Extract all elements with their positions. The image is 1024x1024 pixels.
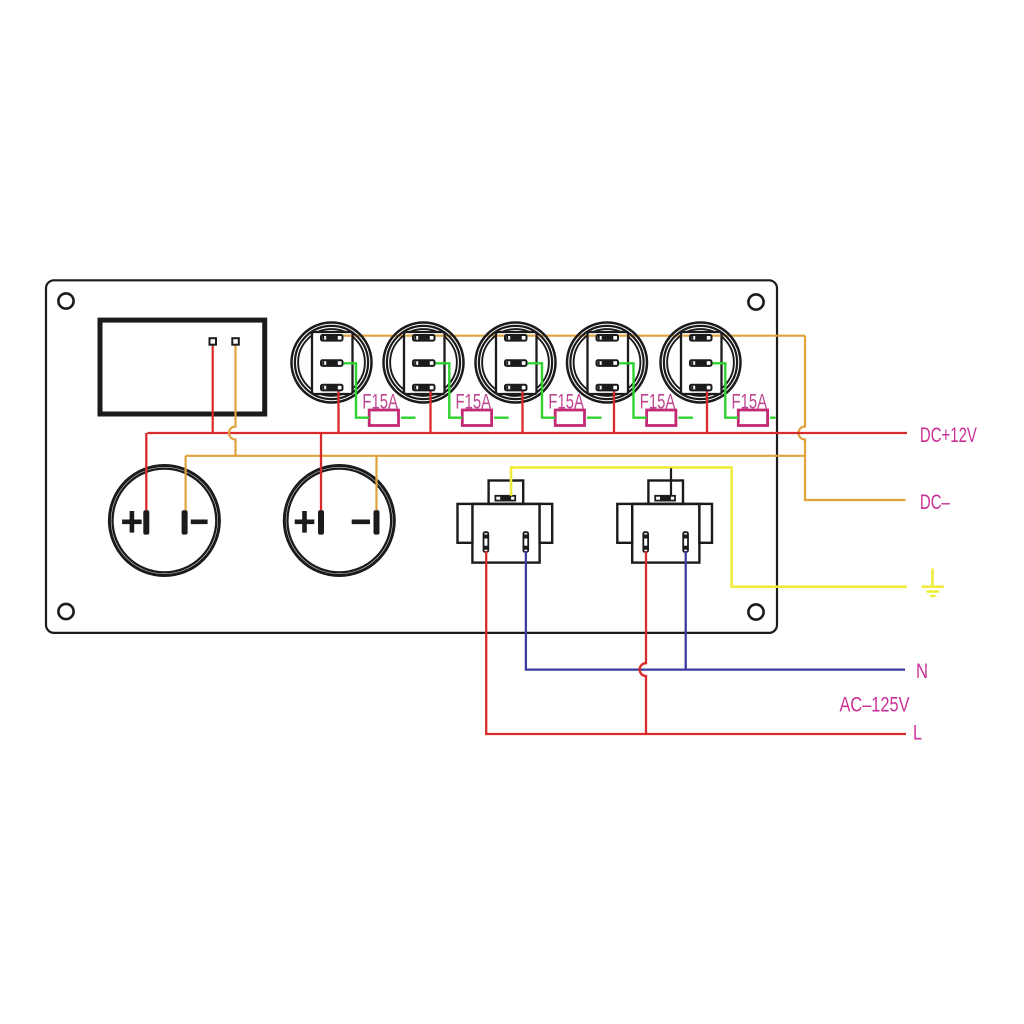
fuse F3 15A bbox=[555, 410, 584, 426]
wire orange voltmeter negative with hop bbox=[229, 346, 236, 456]
wire green SW5 to fuse F5 bbox=[713, 363, 739, 417]
wire red socket P1 positive bbox=[145, 433, 147, 511]
wire orange bus segment across SW4 bbox=[589, 335, 627, 337]
voltmeter display U1 bbox=[100, 320, 265, 414]
outlet J1 line slot bbox=[484, 532, 489, 552]
wire green SW2 to fuse F2 bbox=[436, 363, 463, 417]
wire red SW4 feed bbox=[613, 388, 615, 433]
wire green fuse F5 output lead bbox=[770, 417, 775, 419]
wire orange socket P2 negative bbox=[375, 456, 377, 511]
wire yellow earth from outlet J1 bbox=[511, 467, 907, 586]
voltmeter terminal - bbox=[232, 338, 239, 345]
fuse F5 15A bbox=[738, 410, 767, 426]
wire orange bus segment across SW1 bbox=[342, 335, 351, 337]
wire red SW2 feed bbox=[429, 388, 431, 433]
mounting hole top-left bbox=[58, 293, 73, 308]
rocker switch SW2 body bbox=[384, 323, 464, 403]
12V power socket P2 bbox=[284, 466, 394, 576]
svg-text:F15A: F15A bbox=[732, 390, 768, 413]
wire red SW5 feed bbox=[706, 388, 708, 433]
wire green SW1 to fuse F1 bbox=[344, 363, 370, 417]
wire red SW1 feed bbox=[337, 388, 339, 433]
panel outline bbox=[46, 280, 777, 633]
AC outlet J2 bbox=[617, 481, 712, 563]
svg-text:F15A: F15A bbox=[640, 390, 676, 413]
wire orange socket P1 negative bbox=[185, 456, 187, 511]
wire blue outlet J1 neutral to N bbox=[526, 551, 905, 670]
svg-text:N: N bbox=[916, 660, 928, 683]
fuse F4 15A bbox=[647, 410, 676, 426]
mounting hole top-right bbox=[748, 294, 763, 309]
socket P2 positive terminal pin bbox=[318, 510, 324, 534]
12V power socket P1 bbox=[109, 466, 219, 576]
switch SW3 terminal pins bbox=[505, 335, 527, 390]
wire red socket P2 positive bbox=[320, 433, 322, 511]
wire orange DC- top bus bbox=[342, 335, 805, 337]
wire blue outlet J2 neutral bbox=[685, 551, 687, 670]
svg-text:F15A: F15A bbox=[362, 390, 398, 413]
outlet J2 line slot bbox=[643, 532, 648, 552]
earth ground symbol bbox=[922, 569, 945, 597]
socket P2 minus mark bbox=[352, 519, 370, 524]
wire green SW4 to fuse F4 bbox=[619, 363, 647, 417]
voltmeter terminal + bbox=[210, 338, 217, 345]
wire red voltmeter positive bbox=[212, 346, 214, 433]
wire green fuse F1 output lead bbox=[401, 417, 416, 419]
outlet J1 ground terminal bbox=[495, 496, 515, 501]
wire orange bus segment across SW3 bbox=[497, 335, 535, 337]
svg-text:DC–: DC– bbox=[920, 491, 950, 514]
rocker switch SW4 body bbox=[567, 323, 647, 403]
fuse F1 15A bbox=[369, 410, 398, 426]
svg-text:F15A: F15A bbox=[456, 390, 492, 413]
wire green fuse F3 output lead bbox=[587, 417, 602, 419]
svg-text:DC+12V: DC+12V bbox=[920, 424, 977, 447]
socket P1 plus mark bbox=[122, 511, 142, 533]
socket P2 negative terminal pin bbox=[374, 510, 380, 534]
switch SW1 terminal pins bbox=[321, 335, 343, 390]
wire orange negative bus bbox=[186, 455, 805, 457]
switch SW5 terminal pins bbox=[690, 335, 712, 390]
AC outlet J1 bbox=[458, 481, 553, 563]
outlet J2 ground terminal bbox=[655, 496, 675, 501]
rocker switch SW1 body bbox=[292, 323, 372, 403]
socket P1 positive terminal pin bbox=[143, 510, 149, 534]
fuse F2 15A bbox=[462, 410, 491, 426]
socket P2 plus mark bbox=[295, 511, 315, 533]
wire red DC+12V bus bbox=[147, 432, 907, 434]
wire orange DC- drop with hop over red bus bbox=[799, 336, 906, 500]
mounting hole bottom-right bbox=[748, 604, 763, 619]
wire green fuse F2 output lead bbox=[494, 417, 509, 419]
socket P1 negative terminal pin bbox=[182, 510, 188, 534]
rocker switch SW5 body bbox=[661, 323, 741, 403]
svg-text:L: L bbox=[913, 722, 922, 745]
switch SW2 terminal pins bbox=[413, 335, 435, 390]
wire green SW3 to fuse F3 bbox=[528, 363, 556, 417]
rocker switch SW3 body bbox=[476, 323, 556, 403]
outlet J1 neutral slot bbox=[523, 532, 528, 552]
wire red SW3 feed bbox=[521, 388, 523, 433]
wire green fuse F4 output lead bbox=[678, 417, 693, 419]
mounting hole bottom-left bbox=[58, 604, 73, 619]
socket P1 minus mark bbox=[191, 519, 208, 524]
outlet J2 neutral slot bbox=[683, 532, 688, 552]
wire orange bus segment across SW2 bbox=[405, 335, 443, 337]
svg-text:AC–125V: AC–125V bbox=[840, 694, 910, 717]
wire black outlet J2 earth stub bbox=[670, 468, 672, 496]
svg-text:F15A: F15A bbox=[548, 390, 584, 413]
wire red outlet J1 line to L bbox=[486, 551, 906, 734]
wire red outlet J2 line with hop over N bbox=[640, 551, 646, 734]
switch SW4 terminal pins bbox=[597, 335, 619, 390]
wire orange bus segment across SW5 bbox=[682, 335, 720, 337]
